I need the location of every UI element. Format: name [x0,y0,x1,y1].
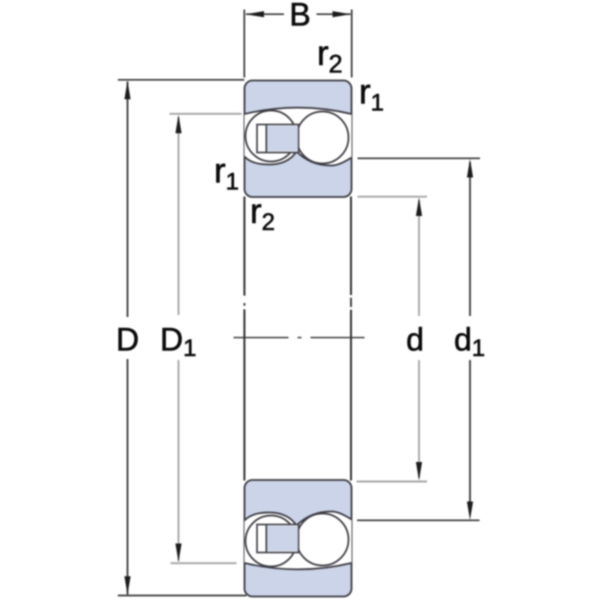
centerline [234,337,365,339]
D1 arrow up [175,115,181,134]
d1 extension line top [358,157,481,159]
B extension line left [243,10,245,78]
d1 extension line bottom [357,519,480,521]
bottom bearing cross-section (mirror) [245,480,352,597]
B dimension line right part [317,13,351,15]
d1 arrow down [467,502,473,521]
svg-text:r1: r1 [214,152,239,196]
bore line left [243,197,245,481]
watermark blob over left bore line [236,296,252,310]
D arrow up [124,81,130,100]
d extension line bottom [357,481,428,483]
B arrow right [333,11,352,17]
D arrow down [124,576,130,595]
svg-text:r1: r1 [359,73,384,117]
svg-text:r2: r2 [250,192,275,236]
B arrow left [246,11,265,17]
D1 extension line bottom [171,562,237,564]
top bearing cross-section [245,81,352,198]
bore line right [350,197,352,481]
B dimension line left part [246,13,284,15]
D extension line top [118,79,245,81]
svg-text:d: d [406,322,424,358]
svg-text:r2: r2 [317,34,343,79]
d dimension line [418,200,420,316]
svg-text:B: B [289,0,310,33]
d1 arrow up [467,159,473,178]
D extension line bottom [118,595,247,597]
svg-text:D1: D1 [160,322,196,363]
svg-text:D: D [116,322,139,358]
B extension line right [351,10,353,78]
D1 extension line top [169,113,241,115]
d extension line top [358,196,428,198]
d arrow down [416,462,422,481]
D1 dimension line [178,117,180,315]
D1 arrow down [175,544,181,563]
svg-text:d1: d1 [454,322,485,363]
D dimension line [127,82,129,318]
d1 dimension line [469,162,471,316]
watermark blob over right bore line [344,295,362,310]
d arrow up [416,198,422,217]
